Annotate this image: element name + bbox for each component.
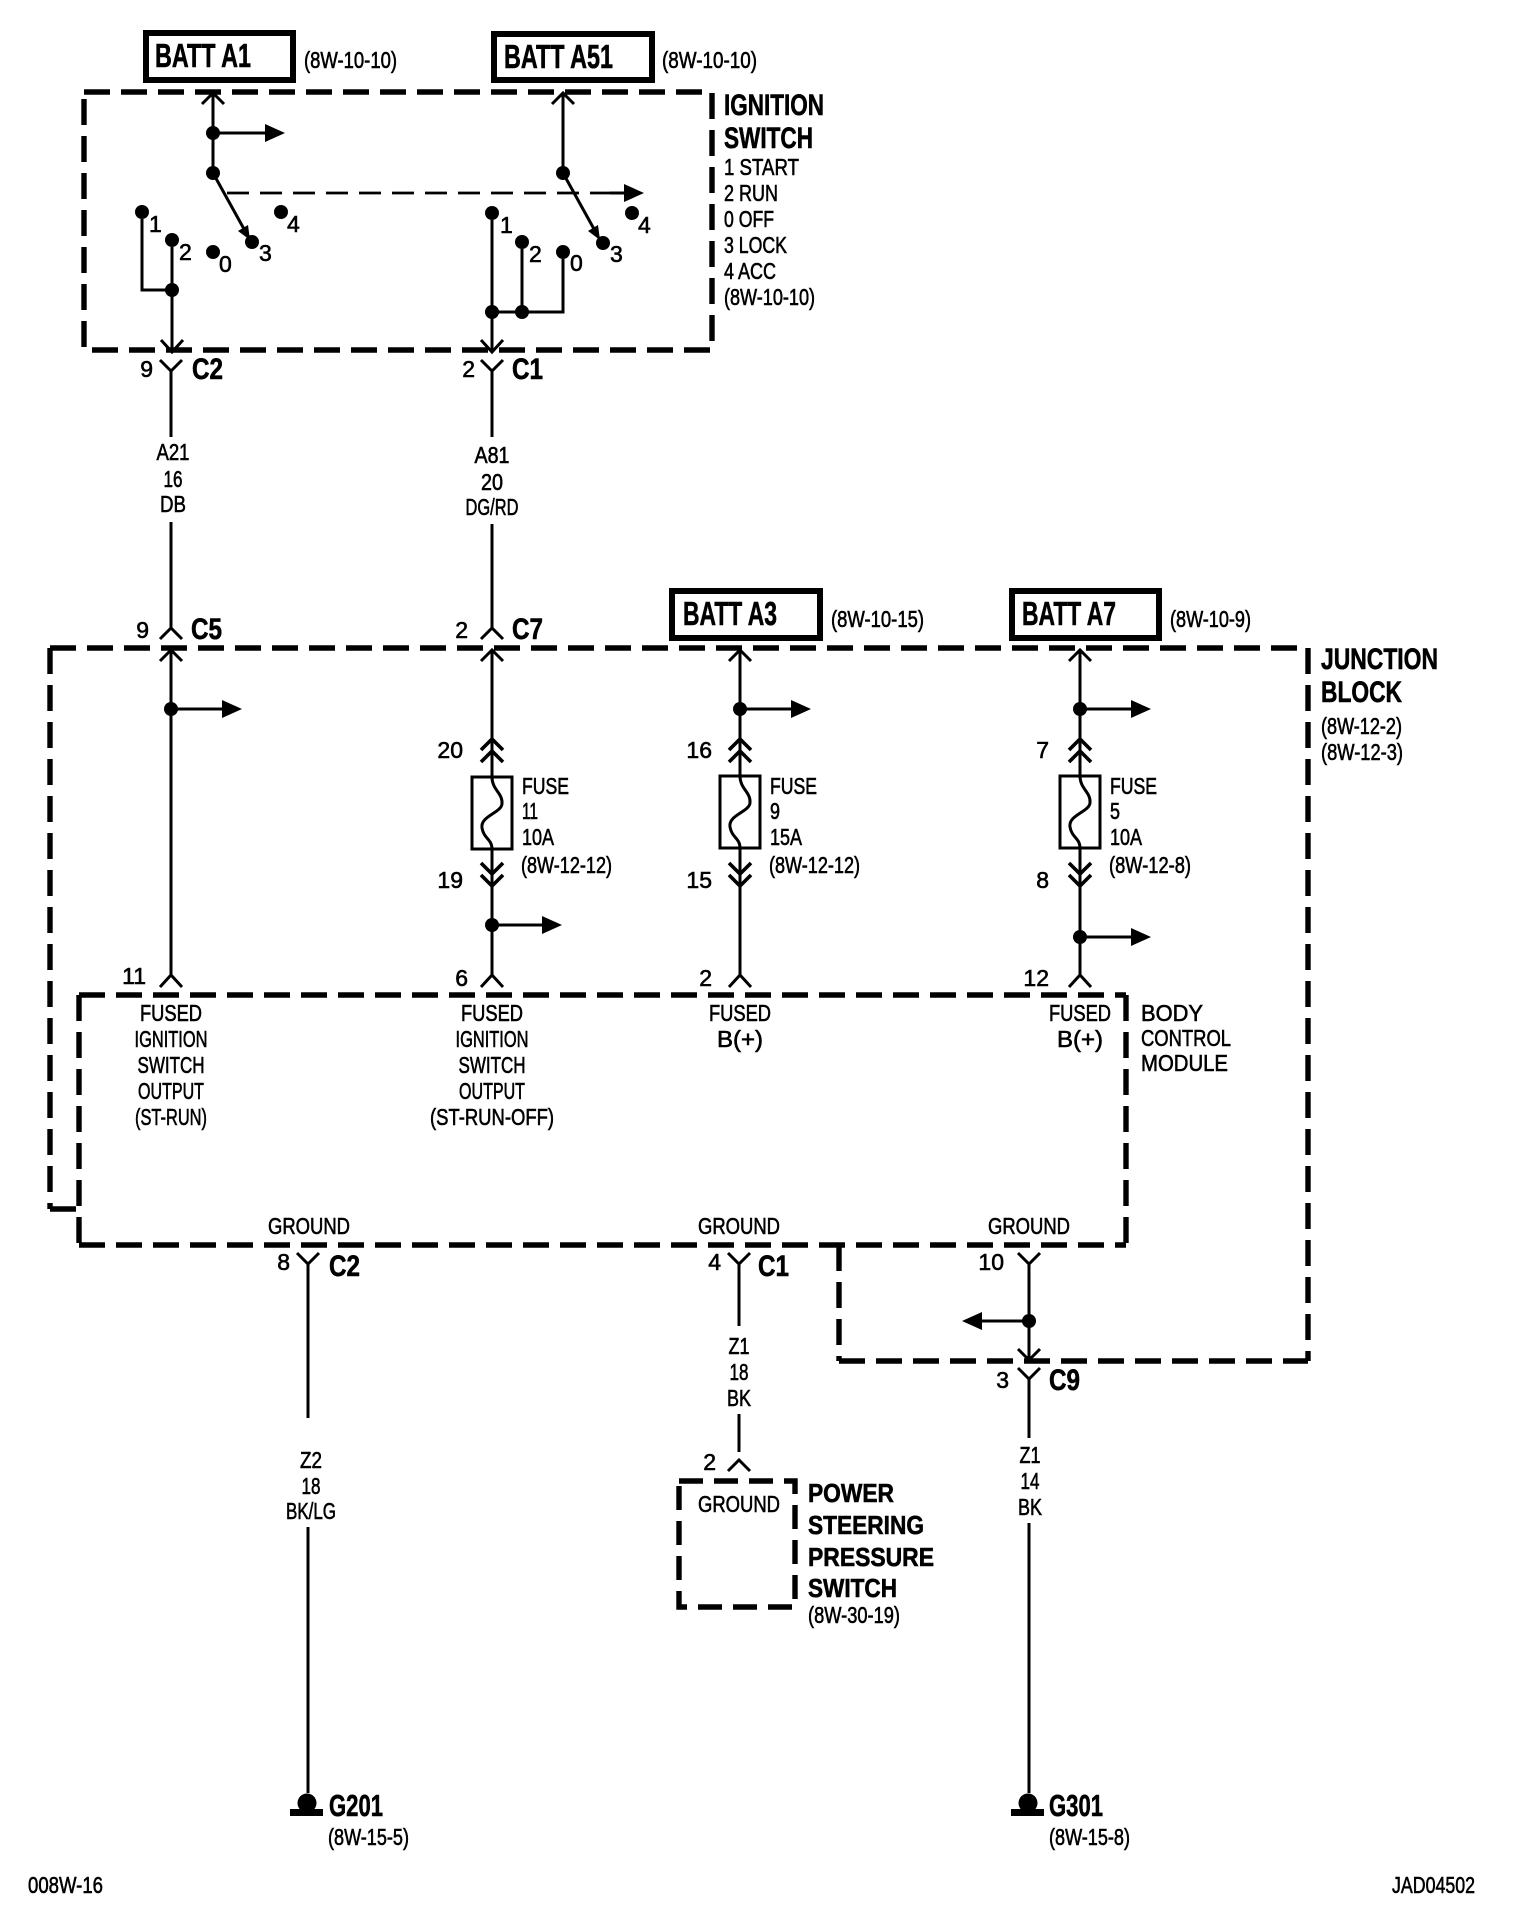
pin 7 double chevron up: [1036, 737, 1091, 763]
wire contact 0 down and left to junction: [492, 259, 563, 312]
junction node with feed arrow in ST-RUN circuit: [164, 700, 242, 718]
svg-text:(ST-RUN): (ST-RUN): [135, 1104, 207, 1130]
wire BATT A3 down to fuse 9: [739, 650, 742, 776]
net label FUSED IGNITION SWITCH OUTPUT (ST-RUN-OFF): [430, 1000, 554, 1130]
svg-text:GROUND: GROUND: [698, 1491, 780, 1517]
wire C7 down to fuse 11: [491, 650, 494, 777]
left switch contact 1: [135, 205, 162, 237]
svg-text:BATT A7: BATT A7: [1022, 595, 1116, 632]
svg-text:3: 3: [610, 241, 623, 267]
body control module dashed border right: [1123, 995, 1128, 1245]
wire contact 2 down to ignition box edge: [171, 247, 174, 350]
BCM lower extension dashed border bottom: [839, 1358, 1308, 1363]
wire fuse 9 down to BCM pin 2: [739, 848, 742, 975]
arrow into junction block at BATT A7 feed: [1069, 650, 1091, 661]
svg-text:B(+): B(+): [717, 1026, 763, 1052]
svg-text:C5: C5: [191, 613, 222, 646]
right switch contact 1: [485, 206, 513, 238]
connector C5 pin 9 fork into junction block: [136, 613, 222, 646]
left switch wiper blade to position 3: [213, 173, 250, 240]
right switch pole: arrow up to BATT A51: [552, 93, 574, 173]
svg-text:SWITCH: SWITCH: [138, 1052, 205, 1078]
svg-text:C7: C7: [512, 613, 543, 646]
svg-text:2: 2: [455, 617, 468, 643]
svg-text:15A: 15A: [770, 824, 803, 850]
arrow into junction block at C7: [481, 650, 503, 661]
ignition switch dashed enclosure: [84, 92, 712, 350]
svg-text:19: 19: [437, 867, 463, 893]
BCM pin 10 fork: [978, 1249, 1040, 1360]
net label FUSED B(+) at pin 12: [1049, 1000, 1111, 1052]
svg-text:4: 4: [287, 211, 300, 237]
wire contact 2 down to junction: [521, 249, 524, 312]
svg-text:008W-16: 008W-16: [28, 1872, 103, 1898]
svg-text:BK/LG: BK/LG: [286, 1498, 336, 1524]
pin 8 double chevron down: [1036, 863, 1091, 893]
svg-text:FUSED: FUSED: [140, 1000, 202, 1026]
right switch contact 2: [515, 235, 542, 267]
junction block label block: [1321, 643, 1438, 765]
svg-text:Z2: Z2: [300, 1447, 322, 1473]
svg-text:FUSE: FUSE: [770, 773, 817, 799]
svg-text:1: 1: [149, 211, 162, 237]
svg-text:11: 11: [522, 798, 538, 824]
svg-text:SWITCH: SWITCH: [808, 1573, 897, 1603]
connector C1 pin 2 fork: [462, 353, 543, 437]
body control module dashed border bottom: [79, 1242, 1126, 1247]
pin 20 double chevron up: [437, 737, 503, 763]
svg-text:BATT A51: BATT A51: [504, 38, 613, 75]
svg-text:5: 5: [1110, 798, 1120, 824]
svg-text:10A: 10A: [522, 824, 555, 850]
svg-text:11: 11: [122, 963, 146, 989]
right switch wiper blade to position 3: [563, 173, 600, 240]
svg-text:MODULE: MODULE: [1141, 1050, 1228, 1076]
svg-text:FUSED: FUSED: [1049, 1000, 1111, 1026]
svg-text:7: 7: [1036, 737, 1049, 763]
left switch junction node to feed arrow: [206, 124, 285, 142]
svg-text:B(+): B(+): [1057, 1026, 1103, 1052]
svg-text:12: 12: [1023, 965, 1049, 991]
right switch wiper pivot node: [556, 166, 570, 180]
svg-text:BODY: BODY: [1141, 1000, 1203, 1026]
junction node with feed arrow on A7 feed: [1073, 700, 1151, 718]
power steering pressure switch label block: [808, 1478, 934, 1628]
left switch contact 2: [165, 233, 192, 265]
BCM pin 6 fork: [455, 965, 503, 991]
junction block dashed border left: [47, 648, 52, 1209]
svg-text:2: 2: [179, 239, 192, 265]
net label FUSED IGNITION SWITCH OUTPUT (ST-RUN): [135, 1000, 208, 1130]
svg-text:GROUND: GROUND: [698, 1213, 780, 1239]
svg-text:15: 15: [686, 867, 712, 893]
fuse 9 15A: [720, 773, 860, 878]
svg-text:(8W-10-10): (8W-10-10): [724, 284, 815, 310]
wire C5 down to BCM pin 11: [170, 650, 173, 975]
svg-text:10A: 10A: [1110, 824, 1143, 850]
svg-text:2: 2: [703, 1449, 716, 1475]
arrow into lower border at C9: [1018, 1349, 1040, 1360]
svg-text:1 START: 1 START: [724, 154, 799, 180]
svg-text:8: 8: [1036, 867, 1049, 893]
svg-text:(8W-15-8): (8W-15-8): [1049, 1824, 1130, 1850]
svg-text:(8W-15-5): (8W-15-5): [328, 1824, 409, 1850]
svg-text:JAD04502: JAD04502: [1392, 1872, 1475, 1898]
svg-text:(8W-10-10): (8W-10-10): [304, 47, 397, 73]
pin 16 double chevron up: [686, 737, 751, 763]
junction block dashed border right: [1305, 648, 1310, 1361]
net label FUSED B(+) at pin 2: [709, 1000, 771, 1052]
BCM lower extension dashed border left: [836, 1245, 841, 1361]
svg-text:C2: C2: [192, 353, 223, 386]
svg-text:OUTPUT: OUTPUT: [138, 1078, 204, 1104]
svg-text:CONTROL: CONTROL: [1141, 1025, 1231, 1051]
svg-text:4 ACC: 4 ACC: [724, 258, 776, 284]
left switch pole: arrow up to BATT A1: [202, 93, 224, 173]
svg-text:IGNITION: IGNITION: [456, 1026, 529, 1052]
svg-text:3 LOCK: 3 LOCK: [724, 232, 787, 258]
svg-text:9: 9: [770, 798, 780, 824]
svg-text:1: 1: [500, 212, 513, 238]
BCM pin 11 fork: [122, 963, 182, 989]
svg-text:STEERING: STEERING: [808, 1510, 924, 1540]
svg-text:Z1: Z1: [1020, 1442, 1041, 1468]
battery feed box BATT A1: [146, 33, 293, 80]
svg-text:G201: G201: [329, 1788, 383, 1823]
ground symbol G201: [290, 1788, 409, 1850]
svg-text:16: 16: [686, 737, 712, 763]
arrow into junction block at BATT A3 feed: [729, 650, 751, 661]
svg-text:GROUND: GROUND: [988, 1213, 1070, 1239]
svg-text:(8W-12-8): (8W-12-8): [1109, 852, 1191, 878]
arrow into border at C1: [481, 340, 503, 352]
arrow into junction block at C5: [160, 650, 182, 661]
svg-text:C9: C9: [1049, 1364, 1080, 1397]
svg-text:A81: A81: [475, 442, 510, 468]
svg-text:BLOCK: BLOCK: [1321, 676, 1402, 709]
wire from contact 1 to output junction: [142, 219, 172, 290]
pin 19 double chevron down: [437, 863, 503, 893]
svg-text:FUSE: FUSE: [522, 773, 569, 799]
arrow into border at C2: [161, 340, 183, 352]
left switch contact 4: [274, 205, 300, 237]
ignition switch label block: [724, 89, 824, 310]
svg-text:(ST-RUN-OFF): (ST-RUN-OFF): [430, 1104, 554, 1130]
wire A21 16 DB: [157, 439, 190, 628]
wire Z1 14 BK: [1018, 1442, 1043, 1793]
power steering pressure switch pin 2 fork: [703, 1449, 750, 1475]
svg-text:Z1: Z1: [729, 1333, 750, 1359]
wire fuse 5 down to BCM pin 12: [1079, 848, 1082, 975]
svg-text:2 RUN: 2 RUN: [724, 180, 778, 206]
junction node under contact 1: [485, 305, 499, 319]
wire BATT A7 down to fuse 5: [1079, 650, 1082, 776]
connector C9 pin 3 fork: [996, 1364, 1080, 1438]
connector C2 pin 9 fork: [140, 353, 223, 437]
junction node under contact 2: [515, 305, 529, 319]
svg-text:18: 18: [302, 1473, 321, 1499]
svg-text:OUTPUT: OUTPUT: [459, 1078, 525, 1104]
svg-text:BK: BK: [1018, 1494, 1043, 1520]
ground symbol G301: [1011, 1788, 1130, 1850]
svg-text:20: 20: [481, 469, 503, 495]
svg-text:2: 2: [699, 965, 712, 991]
svg-text:PRESSURE: PRESSURE: [808, 1542, 934, 1572]
fuse 11 10A: [472, 773, 612, 878]
svg-text:(8W-10-10): (8W-10-10): [662, 47, 757, 73]
svg-text:C2: C2: [329, 1250, 360, 1283]
svg-text:3: 3: [259, 240, 272, 266]
BCM pin 12 fork: [1023, 965, 1091, 991]
svg-text:(8W-12-3): (8W-12-3): [1321, 739, 1403, 765]
svg-text:2: 2: [462, 356, 475, 382]
svg-text:(8W-12-12): (8W-12-12): [769, 852, 860, 878]
svg-text:0 OFF: 0 OFF: [724, 206, 774, 232]
switch position dashed travel line with arrow: [227, 184, 644, 202]
svg-text:8: 8: [277, 1249, 290, 1275]
right switch contact 0: [556, 245, 583, 276]
svg-text:3: 3: [996, 1367, 1009, 1393]
svg-text:18: 18: [730, 1359, 749, 1385]
battery feed box BATT A51: [494, 34, 652, 80]
svg-text:0: 0: [219, 251, 232, 277]
wire Z1 18 BK: [727, 1333, 752, 1452]
svg-text:BATT A1: BATT A1: [155, 37, 251, 74]
junction block dashed border bottom-left jog: [50, 1206, 79, 1211]
BCM connector C1 pin 4 fork: [708, 1249, 789, 1326]
svg-text:(8W-12-2): (8W-12-2): [1321, 713, 1402, 739]
junction node under contact 2: [165, 283, 179, 297]
svg-text:4: 4: [638, 212, 651, 238]
svg-text:(8W-10-15): (8W-10-15): [831, 606, 924, 632]
svg-text:IGNITION: IGNITION: [135, 1026, 208, 1052]
pin 15 double chevron down: [686, 863, 751, 893]
svg-text:C1: C1: [512, 353, 543, 386]
svg-text:4: 4: [708, 1249, 721, 1275]
wire A81 20 DG/RD: [466, 442, 519, 628]
junction node with arrow pointing left on ground net: [962, 1312, 1036, 1330]
battery feed box BATT A3: [672, 591, 820, 638]
svg-text:IGNITION: IGNITION: [724, 89, 824, 122]
svg-text:(8W-10-9): (8W-10-9): [1170, 606, 1251, 632]
left switch contact 3: [245, 235, 272, 266]
svg-text:FUSE: FUSE: [1110, 773, 1157, 799]
battery feed box BATT A7: [1012, 591, 1159, 638]
junction node with feed arrow below fuse 5: [1073, 928, 1151, 946]
svg-text:DG/RD: DG/RD: [466, 494, 519, 520]
connector C7 pin 2 fork into junction block: [455, 613, 543, 646]
svg-text:2: 2: [529, 241, 542, 267]
svg-text:JUNCTION: JUNCTION: [1321, 643, 1438, 676]
svg-text:20: 20: [437, 737, 463, 763]
svg-text:9: 9: [136, 617, 149, 643]
svg-text:FUSED: FUSED: [461, 1000, 523, 1026]
BCM connector C2 pin 8 fork: [277, 1249, 360, 1418]
fuse 5 10A: [1060, 773, 1191, 878]
left switch contact 0: [206, 245, 232, 277]
right switch contact 4: [625, 206, 651, 238]
svg-text:FUSED: FUSED: [709, 1000, 771, 1026]
svg-text:14: 14: [1021, 1468, 1040, 1494]
svg-text:C1: C1: [758, 1250, 789, 1283]
svg-text:SWITCH: SWITCH: [459, 1052, 526, 1078]
BCM pin 2 fork: [699, 965, 751, 991]
body control module dashed border top: [79, 992, 1126, 997]
svg-text:GROUND: GROUND: [268, 1213, 350, 1239]
svg-text:BK: BK: [727, 1385, 752, 1411]
svg-text:10: 10: [978, 1249, 1004, 1275]
junction node with feed arrow on A3 feed: [733, 700, 811, 718]
power steering pressure switch dashed enclosure: [679, 1481, 795, 1607]
body control module label block: [1141, 1000, 1231, 1076]
svg-text:BATT A3: BATT A3: [683, 595, 777, 632]
svg-text:16: 16: [164, 466, 183, 492]
svg-text:0: 0: [570, 250, 583, 276]
wire fuse 11 down to BCM pin 6: [491, 849, 494, 975]
body control module dashed border left: [76, 995, 81, 1245]
svg-text:(8W-30-19): (8W-30-19): [808, 1602, 900, 1628]
svg-text:G301: G301: [1049, 1788, 1103, 1823]
svg-text:9: 9: [140, 356, 153, 382]
svg-text:A21: A21: [157, 439, 190, 465]
left switch wiper pivot node: [206, 166, 220, 180]
junction node with feed arrow below fuse 11: [485, 916, 562, 934]
right switch contact 3: [596, 236, 623, 267]
svg-text:SWITCH: SWITCH: [724, 122, 813, 155]
wire Z2 18 BK/LG: [286, 1447, 336, 1793]
svg-text:6: 6: [455, 965, 468, 991]
wire contact 1 down to ignition box edge: [491, 220, 494, 350]
svg-text:(8W-12-12): (8W-12-12): [521, 852, 612, 878]
svg-text:DB: DB: [160, 491, 186, 517]
svg-text:POWER: POWER: [808, 1478, 894, 1508]
junction block dashed border top: [50, 645, 1308, 650]
